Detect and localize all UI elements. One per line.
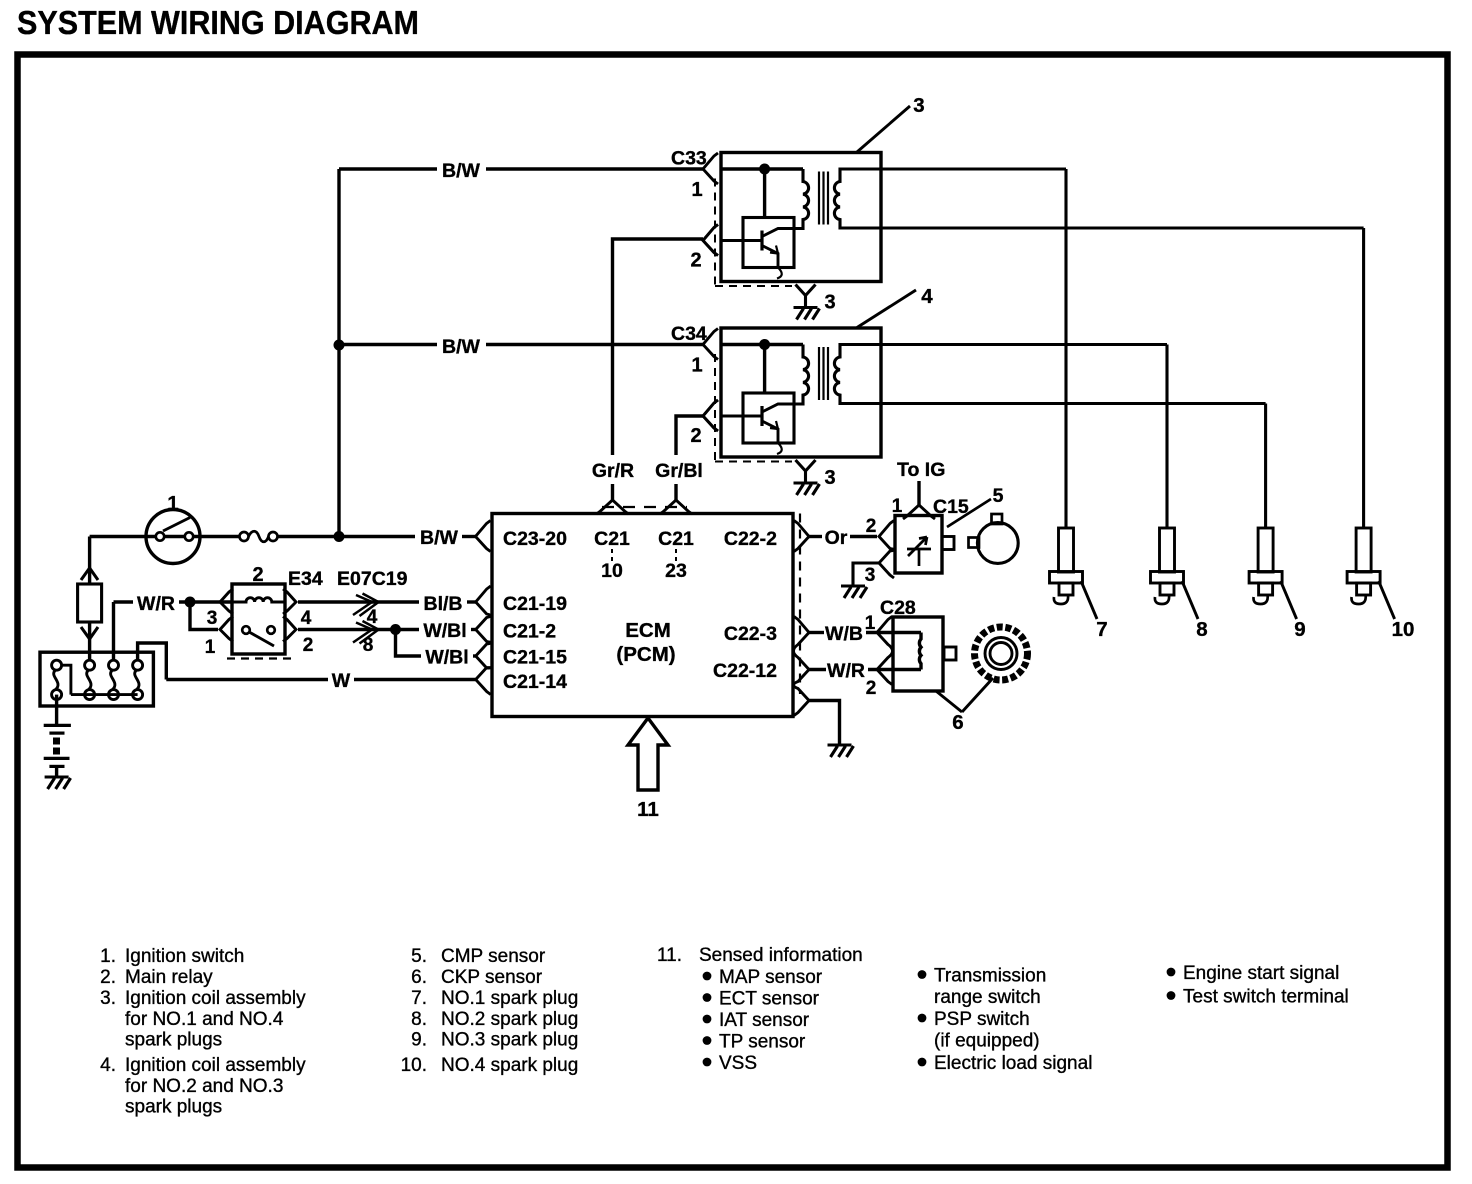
svg-text:3: 3 [913, 94, 924, 117]
svg-text:C22-3: C22-3 [724, 623, 777, 645]
svg-text:2: 2 [866, 678, 877, 699]
svg-text:ECM: ECM [625, 619, 671, 642]
svg-text:9.: 9. [411, 1030, 427, 1051]
svg-text:Ignition coil assembly: Ignition coil assembly [125, 1055, 306, 1076]
svg-text:1: 1 [205, 637, 216, 658]
svg-text:10: 10 [1392, 618, 1415, 641]
svg-text:Or: Or [825, 527, 848, 549]
svg-text:C21: C21 [594, 528, 630, 550]
svg-text:Ignition switch: Ignition switch [125, 946, 244, 967]
svg-text:W/R: W/R [827, 660, 865, 682]
svg-text:7.: 7. [411, 988, 427, 1009]
svg-text:W/R: W/R [137, 593, 175, 615]
svg-text:C21-14: C21-14 [503, 671, 567, 693]
svg-text:SYSTEM WIRING DIAGRAM: SYSTEM WIRING DIAGRAM [17, 4, 419, 41]
svg-text:3: 3 [865, 565, 876, 586]
svg-text:2.: 2. [100, 967, 116, 988]
svg-text:23: 23 [665, 560, 687, 582]
svg-text:10: 10 [601, 560, 623, 582]
svg-text:2: 2 [866, 516, 877, 537]
svg-text:Gr/Bl: Gr/Bl [655, 460, 703, 482]
svg-text:4: 4 [921, 285, 933, 308]
svg-text:Transmission: Transmission [934, 966, 1046, 987]
svg-text:ECT sensor: ECT sensor [719, 989, 820, 1010]
svg-text:W/B: W/B [825, 623, 863, 645]
svg-text:1: 1 [892, 496, 903, 517]
svg-text:Gr/R: Gr/R [592, 460, 634, 482]
svg-text:1: 1 [167, 492, 178, 515]
svg-text:W: W [332, 670, 351, 692]
svg-text:2: 2 [303, 635, 314, 656]
svg-text:IAT sensor: IAT sensor [719, 1010, 810, 1031]
svg-text:W/Bl: W/Bl [423, 620, 466, 642]
svg-text:spark plugs: spark plugs [125, 1097, 222, 1118]
svg-text:for NO.2 and NO.3: for NO.2 and NO.3 [125, 1076, 283, 1097]
svg-text:CKP sensor: CKP sensor [441, 967, 543, 988]
svg-text:2: 2 [690, 425, 701, 447]
svg-text:8: 8 [363, 635, 374, 656]
svg-text:11: 11 [637, 798, 659, 821]
svg-text:1: 1 [691, 355, 702, 377]
svg-text:3: 3 [824, 467, 835, 489]
svg-text:1: 1 [865, 613, 876, 634]
svg-text:E07C19: E07C19 [337, 568, 408, 590]
svg-text:1.: 1. [100, 946, 116, 967]
svg-text:4: 4 [367, 607, 378, 628]
svg-text:CMP sensor: CMP sensor [441, 946, 546, 967]
svg-text:8: 8 [1196, 618, 1207, 641]
svg-text:NO.1 spark plug: NO.1 spark plug [441, 988, 578, 1009]
svg-text:E34: E34 [288, 568, 323, 590]
svg-text:1: 1 [691, 179, 702, 201]
svg-text:spark plugs: spark plugs [125, 1030, 222, 1051]
svg-text:9: 9 [1294, 618, 1305, 641]
svg-text:Bl/B: Bl/B [424, 593, 463, 615]
svg-text:11.: 11. [657, 945, 682, 966]
svg-text:2: 2 [252, 564, 263, 586]
svg-text:(PCM): (PCM) [616, 643, 675, 666]
svg-text:7: 7 [1096, 618, 1107, 641]
svg-text:To IG: To IG [897, 459, 945, 481]
svg-text:3: 3 [824, 292, 835, 314]
svg-text:(if equipped): (if equipped) [934, 1031, 1040, 1052]
svg-text:NO.2 spark plug: NO.2 spark plug [441, 1009, 578, 1030]
svg-text:PSP switch: PSP switch [934, 1009, 1030, 1030]
svg-text:5.: 5. [411, 946, 427, 967]
svg-text:6.: 6. [411, 967, 427, 988]
svg-text:C22-2: C22-2 [724, 528, 777, 550]
svg-text:C21-19: C21-19 [503, 593, 567, 615]
svg-text:Electric load signal: Electric load signal [934, 1053, 1092, 1074]
svg-text:8.: 8. [411, 1009, 427, 1030]
svg-text:C21-2: C21-2 [503, 621, 556, 643]
svg-text:C23-20: C23-20 [503, 528, 567, 550]
svg-text:C15: C15 [933, 496, 969, 518]
svg-text:W/Bl: W/Bl [425, 647, 468, 669]
svg-text:Engine start signal: Engine start signal [1183, 963, 1339, 984]
svg-text:C21-15: C21-15 [503, 647, 567, 669]
svg-text:3.: 3. [100, 988, 116, 1009]
svg-text:3: 3 [207, 608, 218, 629]
svg-text:6: 6 [952, 711, 963, 734]
svg-text:NO.4 spark plug: NO.4 spark plug [441, 1055, 578, 1076]
svg-text:10.: 10. [401, 1055, 427, 1076]
svg-text:Test switch terminal: Test switch terminal [1183, 987, 1349, 1008]
svg-text:4: 4 [301, 608, 312, 629]
svg-text:Main relay: Main relay [125, 967, 213, 988]
svg-text:C33: C33 [671, 148, 707, 170]
svg-text:TP sensor: TP sensor [719, 1032, 806, 1053]
svg-text:C21: C21 [658, 528, 694, 550]
svg-text:2: 2 [690, 250, 701, 272]
svg-text:for NO.1 and NO.4: for NO.1 and NO.4 [125, 1009, 284, 1030]
svg-text:B/W: B/W [420, 527, 459, 549]
svg-text:VSS: VSS [719, 1053, 757, 1074]
svg-text:5: 5 [993, 485, 1004, 507]
svg-text:NO.3 spark plug: NO.3 spark plug [441, 1030, 578, 1051]
svg-text:4.: 4. [100, 1055, 116, 1076]
svg-text:B/W: B/W [442, 336, 481, 358]
svg-text:range switch: range switch [934, 987, 1041, 1008]
svg-text:MAP sensor: MAP sensor [719, 967, 823, 988]
svg-text:B/W: B/W [442, 160, 481, 182]
svg-text:C22-12: C22-12 [713, 660, 777, 682]
svg-text:Ignition coil assembly: Ignition coil assembly [125, 988, 306, 1009]
svg-text:Sensed information: Sensed information [699, 945, 863, 966]
svg-text:C34: C34 [671, 323, 707, 345]
